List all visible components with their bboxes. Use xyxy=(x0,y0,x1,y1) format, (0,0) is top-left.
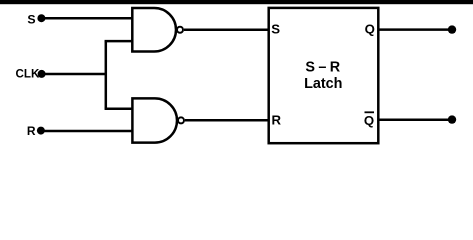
node Q output dot xyxy=(448,25,456,33)
pin label Q-bar xyxy=(364,112,374,128)
top border bar xyxy=(0,0,473,4)
label S-R latch title xyxy=(304,60,342,93)
svg-text:Q: Q xyxy=(364,113,374,128)
svg-text:R: R xyxy=(27,124,36,138)
nand gate G2 body xyxy=(132,98,177,142)
wire G1 output to latch S xyxy=(184,29,269,32)
wire Q-bar output xyxy=(378,118,452,121)
svg-text:S: S xyxy=(27,12,35,26)
svg-text:R: R xyxy=(272,113,282,128)
wire CLK horizontal xyxy=(42,73,106,76)
nand gate G1 bubble xyxy=(177,27,183,33)
nand gate G2 bubble xyxy=(178,117,184,123)
wire branch to NAND2 top input xyxy=(105,107,133,110)
svg-text:Latch: Latch xyxy=(304,76,342,92)
svg-text:S – R: S – R xyxy=(305,60,340,76)
nand gate G1 body xyxy=(132,8,176,52)
wire G2 output to latch R xyxy=(185,119,269,122)
node R input dot xyxy=(37,127,45,135)
wire CLK branch vertical xyxy=(105,41,108,109)
S-R latch U1 box xyxy=(269,8,379,143)
wire Q output xyxy=(378,28,452,31)
svg-text:CLK: CLK xyxy=(15,67,39,80)
wire branch to NAND1 bottom input xyxy=(105,40,133,43)
svg-text:Q: Q xyxy=(365,22,375,37)
wire S to NAND1 top input xyxy=(41,17,133,20)
svg-text:S: S xyxy=(271,21,280,36)
node CLK input dot xyxy=(38,70,46,78)
node Q-bar output dot xyxy=(448,115,456,123)
node S input dot xyxy=(37,14,45,22)
wire R to NAND2 bottom input xyxy=(41,130,133,133)
